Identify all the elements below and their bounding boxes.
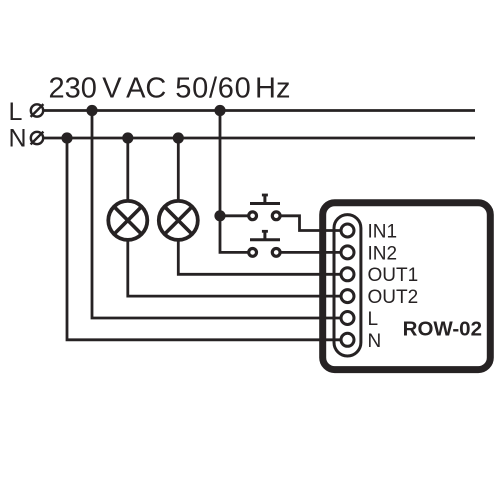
svg-text:Hz: Hz (255, 73, 290, 105)
svg-text:N: N (368, 331, 382, 352)
wire N to lamp E2 (177, 138, 180, 201)
junction node on N at lamp E2 (173, 132, 184, 143)
title 230 V AC 50/60 Hz (49, 73, 291, 105)
wire L bus (44, 109, 476, 112)
wire N bus (44, 137, 476, 140)
terminal OUT1 (341, 268, 354, 281)
wire N to module N terminal (67, 138, 340, 340)
wire L to module L terminal (92, 111, 340, 319)
wire lamp E1 to OUT2 (128, 240, 340, 296)
svg-text:OUT2: OUT2 (368, 287, 419, 308)
terminal strip pill (334, 215, 361, 356)
svg-text:OUT1: OUT1 (368, 265, 419, 286)
module U1 ROW-02 box (323, 203, 491, 370)
wire N to lamp E1 (126, 138, 129, 201)
wire switch S1 to IN1 (281, 216, 340, 231)
terminal symbol N (31, 132, 44, 145)
terminal N (341, 333, 354, 346)
svg-text:V: V (102, 73, 122, 105)
terminal L (341, 312, 354, 325)
terminal IN1 (341, 224, 354, 237)
wire node to switch S1 (220, 214, 248, 217)
terminal symbol L (31, 104, 44, 117)
junction node on N at lamp E1 (122, 132, 133, 143)
junction node at switches branch (214, 210, 225, 221)
svg-text:N: N (9, 125, 27, 153)
svg-text:L: L (9, 98, 23, 126)
lamp E2 (159, 201, 198, 240)
svg-text:IN1: IN1 (368, 221, 398, 242)
lamp E1 (108, 201, 147, 240)
terminal IN2 (341, 246, 354, 259)
junction node on L at x=92 (86, 105, 97, 116)
svg-text:L: L (368, 309, 379, 330)
terminal OUT2 (341, 290, 354, 303)
wire L to switches (220, 111, 248, 253)
junction node on N at x=67 (61, 132, 72, 143)
svg-text:ROW-02: ROW-02 (403, 318, 482, 341)
svg-text:50/60: 50/60 (175, 73, 251, 105)
svg-text:230: 230 (49, 73, 97, 105)
wire switch S2 to IN2 (281, 251, 340, 254)
wire lamp E2 to OUT1 (178, 240, 340, 274)
push button S2 (249, 231, 280, 256)
push button S1 (249, 195, 280, 220)
svg-text:AC: AC (126, 73, 166, 105)
svg-text:IN2: IN2 (368, 243, 398, 264)
junction node on L at x=220 (214, 105, 225, 116)
